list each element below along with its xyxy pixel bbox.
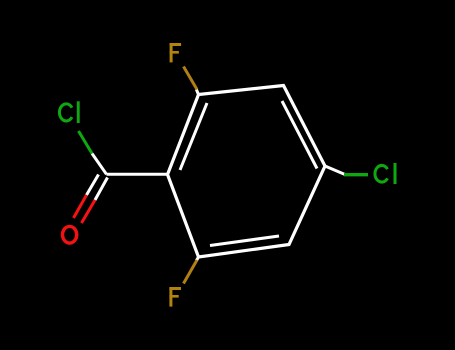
bond Cl(left) green part — [79, 131, 93, 154]
wire: white part of C=O double bond line A — [87, 175, 99, 196]
wire: inner double bond C3=C4 — [282, 101, 317, 169]
label O: red ring — [61, 225, 79, 245]
wire: acyl C7 to ring C1 — [107, 173, 168, 176]
label F top (stem + two arms) — [170, 43, 182, 62]
label Cl left: C arc + l stem — [59, 101, 79, 123]
benzene ring hexagon C1-C2-C3-C4-C5-C6 — [168, 86, 326, 258]
wire: white tip of F(top) bond at C2 — [196, 89, 198, 94]
bond F(top) to C2 — [184, 67, 198, 90]
label F bottom — [169, 287, 181, 307]
bond F(bottom) to C6 — [184, 260, 198, 284]
wire: white tip of F(bottom) bond at C6 — [196, 257, 198, 261]
red C=O double bond line B — [82, 200, 96, 223]
wire: white part of C7-Cl bond — [92, 154, 107, 175]
bond Cl(right) green dash — [344, 173, 368, 176]
wire: inner double bond C5=C6 — [210, 236, 279, 246]
red C=O double bond line A — [74, 195, 87, 218]
wire: white part of C=O double bond line B — [95, 178, 108, 201]
label Cl right: C arc + l stem — [375, 163, 397, 184]
wire: white part of C4-Cl bond — [325, 166, 345, 175]
wire: inner double bond C1=C2 — [180, 103, 207, 170]
